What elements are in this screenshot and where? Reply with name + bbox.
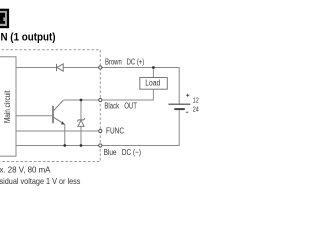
svg-text:x. 28 V, 80 mA: x. 28 V, 80 mA (0, 165, 51, 175)
svg-text:Blue DC (−): Blue DC (−) (104, 147, 142, 157)
svg-text:N (1 output): N (1 output) (1, 32, 56, 44)
svg-text:Black OUT: Black OUT (104, 101, 137, 111)
svg-text:sidual voltage 1 V or less: sidual voltage 1 V or less (0, 176, 80, 186)
svg-text:24: 24 (193, 104, 199, 113)
svg-text:12: 12 (193, 95, 199, 104)
svg-text:Brown DC (+): Brown DC (+) (105, 56, 144, 66)
svg-text:Load: Load (145, 78, 160, 87)
svg-text:Main circuit: Main circuit (3, 90, 12, 123)
svg-text:FUNC: FUNC (106, 125, 124, 135)
